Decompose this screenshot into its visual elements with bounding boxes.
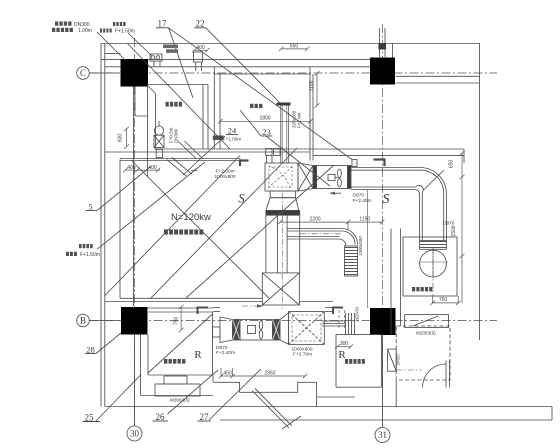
top-left note line2 [52, 28, 55, 32]
leader 17 [169, 28, 352, 160]
short wall above column 31 [392, 44, 394, 58]
svg-text:300: 300 [340, 341, 349, 347]
dim 1500 right vertical [461, 177, 463, 303]
svg-text:R: R [194, 349, 202, 361]
dim 750 right-bottom [433, 302, 459, 304]
left mid note line1 CJK [79, 244, 82, 248]
flex connector left (dark) [313, 166, 317, 189]
axial fan circle [420, 250, 447, 277]
wall band under rooms line 1 [155, 148, 465, 150]
opening corner mark right [333, 308, 343, 315]
bottom-left room R top wall line1 [148, 307, 213, 309]
generator room hatch X diagonal 2 [131, 160, 269, 298]
bottom fan row: inlet connector [213, 327, 221, 337]
elbow seam diagonal [423, 170, 444, 191]
fan propeller [338, 169, 342, 178]
bottom fan cone [220, 317, 233, 343]
lower duct bottom line [287, 238, 339, 240]
grid 31 bubble stem [382, 336, 384, 428]
bottom-middle room R2 right wall [380, 334, 382, 387]
svg-text:F+2.0m: F+2.0m [297, 112, 302, 128]
dim 400 lower-left [125, 169, 137, 171]
intake shaft inner duct [277, 215, 279, 273]
small elbow inner arc [342, 231, 355, 244]
stepped plinth outline under bottom fan row [214, 382, 355, 397]
generator room left edge [119, 159, 121, 298]
top small fixture near column (circles) [150, 54, 162, 61]
pipes through B wall left of column 31 [345, 313, 347, 334]
vertical duct right wall [445, 194, 447, 241]
fan room centerline [432, 248, 434, 296]
dashed plant room bottom right [396, 326, 450, 380]
room1 right wall line 2 [207, 85, 209, 150]
grid 30 bubble stem [134, 335, 136, 426]
leader 23 [266, 136, 330, 186]
bottom building line 2 [220, 419, 552, 421]
grid line C (dash-dot horizontal) [90, 72, 498, 74]
elbow inner wall top arc [351, 170, 444, 240]
svg-text:S: S [238, 191, 245, 206]
B-wall top segments near plenum [325, 307, 333, 309]
top-left note2 line2 CJK + F+1.50m [100, 29, 102, 33]
dim 1100 vertical [316, 73, 318, 105]
duct top cap bar [277, 103, 291, 106]
svg-text:F+1.50m: F+1.50m [115, 28, 135, 34]
svg-text:600: 600 [118, 134, 124, 143]
room2 right wall line 2 [312, 74, 314, 161]
wall band under rooms line 3 [120, 158, 241, 160]
flex above fan circle [420, 240, 447, 249]
fixture label lines [163, 45, 178, 49]
wall line y=155.6 right segment [313, 155, 464, 157]
leader 28 [96, 333, 121, 354]
tick boxes on wall band [266, 149, 272, 156]
wall verticals right of exhaust area [390, 229, 392, 335]
svg-text:750: 750 [439, 297, 448, 303]
wall line under dashed room [395, 380, 397, 407]
room1 top wall [148, 84, 209, 86]
dim 600 left vertical [126, 129, 128, 147]
elbow outer arc [420, 168, 446, 194]
generator room bottom wall line 1 [120, 297, 262, 299]
long section diagonal A [128, 44, 231, 150]
bottom-left room R outer left wall [140, 335, 142, 396]
dashed pair below small elbow [338, 310, 340, 330]
leader 22 [206, 28, 281, 104]
bottom-middle room R2 left wall [335, 334, 337, 387]
wall under column C-30 (step) [135, 87, 148, 117]
dim 650 top [281, 48, 307, 50]
svg-text:F+1.00m: F+1.00m [223, 137, 241, 142]
svg-text:750: 750 [174, 317, 180, 326]
vertical line left of grid31 lower [367, 190, 369, 308]
air intake neck below damper box [270, 191, 296, 198]
svg-text:1800: 1800 [259, 116, 270, 122]
svg-text:DN300: DN300 [174, 128, 179, 143]
damper dashed arc inside box [268, 166, 290, 188]
room1 name CJK [166, 102, 169, 107]
muffler slash [413, 316, 438, 326]
transition cone with X [298, 163, 313, 191]
C bubble stem [89, 72, 120, 74]
bottom-middle room R2 top wall [336, 333, 381, 335]
intake shaft outer walls [265, 215, 267, 273]
svg-text:650: 650 [449, 160, 455, 169]
svg-text:27: 27 [200, 412, 210, 422]
top wall right of column 31 line 1 [396, 75, 480, 77]
muffler box under room R [155, 384, 200, 396]
svg-text:N=120kw: N=120kw [171, 212, 211, 223]
dash-dot into door area [396, 369, 422, 371]
svg-text:31: 31 [378, 430, 387, 440]
generator room hatch X diagonal 1a [150, 148, 297, 299]
svg-text:M2003(5): M2003(5) [416, 331, 436, 336]
svg-text:DN50: DN50 [396, 354, 401, 365]
generator room bottom wall line 2 [105, 301, 262, 303]
dim 400 #2 [137, 169, 160, 171]
muffler box right [405, 315, 449, 328]
damper dashed diagonal [268, 166, 293, 188]
dim 400 top [194, 49, 207, 51]
supply duct: damper plenum box [265, 163, 298, 191]
damper box dashed inner rect [269, 167, 292, 187]
svg-text:1500: 1500 [451, 225, 457, 236]
generator room hatch X diagonal 1b [105, 156, 241, 297]
dim 1800 room2 [220, 120, 310, 122]
leader 25 [95, 375, 141, 423]
svg-text:2350: 2350 [264, 371, 275, 377]
pipe legs under circle fixture [153, 61, 155, 67]
bottom-left room R lower line [141, 395, 214, 397]
leader 5 [97, 167, 150, 211]
leader 24 [183, 136, 225, 175]
B wall segment right of shaft [299, 301, 333, 303]
vertical duct left wall [419, 195, 421, 241]
stray diagonal bottom left of 31 [282, 416, 301, 429]
small label near room2 left bottom [213, 136, 224, 140]
top-left note line1 CJK+DN300 [55, 22, 58, 26]
room2 left wall line 1 [213, 67, 215, 149]
door arc bottom right [423, 364, 447, 388]
bottom plenum with dashed X [289, 312, 325, 345]
svg-text:25: 25 [85, 413, 95, 423]
standpipe in room1: circle [154, 126, 163, 135]
room1 right wall line 1 [202, 85, 204, 150]
svg-text:22: 22 [196, 19, 205, 29]
top wall band line 2 [148, 66, 371, 68]
grid bubble C [77, 67, 90, 80]
svg-text:C: C [80, 68, 86, 78]
right building edge [479, 44, 481, 341]
standpipe base [156, 150, 162, 158]
extra top-left band lines [105, 53, 121, 55]
wall band under rooms line 2 [105, 151, 310, 153]
lower duct inner lines [287, 230, 342, 232]
room R name CJK [164, 359, 167, 364]
leader top-left note 1 [97, 32, 125, 60]
bottom flex 1 [233, 320, 241, 341]
grid line 30 (dash-dot vertical) [134, 38, 136, 426]
bottom-left room R inner left wall [147, 335, 149, 376]
left outer wall line 2 [104, 44, 106, 407]
svg-text:2xDN50: 2xDN50 [355, 306, 360, 322]
svg-text:1000x800: 1000x800 [215, 174, 236, 180]
wall band under rooms line 4 [120, 160, 241, 162]
column B-31 [370, 308, 396, 335]
svg-text:DN300: DN300 [74, 22, 90, 28]
dim 300 bottom-middle [337, 346, 351, 348]
fan circle cross [419, 261, 448, 263]
svg-text:400: 400 [148, 165, 157, 171]
svg-text:5: 5 [88, 202, 92, 212]
duct to elbow bottom line [351, 189, 415, 191]
leader top-left note 2 [128, 33, 152, 56]
dim 450 / 2350 [221, 375, 305, 377]
intake louver hatched band [266, 210, 300, 215]
pipe stub above column C31 [379, 28, 381, 57]
CJK text simulated as tiny strokes [52, 22, 432, 364]
lower duct centerline [300, 233, 342, 235]
door leaf [445, 361, 447, 388]
fan room name CJK [412, 287, 415, 291]
svg-text:23: 23 [262, 127, 271, 137]
left outer wall line 1 [100, 44, 102, 407]
flex on vertical duct between bottom rooms [388, 349, 397, 371]
bottom right closing edge [551, 407, 553, 421]
exhaust plenum box with X [262, 273, 299, 305]
svg-text:400: 400 [127, 165, 136, 171]
column B-30 [121, 307, 148, 335]
small elbow outer arc [342, 229, 358, 245]
thick opening mark left of damper [240, 161, 249, 167]
duct to elbow top line [351, 167, 420, 169]
dim 750 left-bottom vertical [180, 307, 182, 330]
exhaust louver hatched [345, 246, 358, 276]
svg-text:M2003(5): M2003(5) [170, 398, 190, 403]
top wall band line 1 [101, 58, 371, 60]
top wall right of column 31 line 2 [396, 82, 480, 84]
insulation marks on room1 bottom wall [178, 141, 196, 159]
room R right wall extension to plinth [212, 375, 214, 382]
svg-text:26: 26 [156, 412, 166, 422]
svg-text:1.00m: 1.00m [78, 28, 92, 34]
airflow arrow under fan [330, 192, 341, 194]
svg-text:2200: 2200 [309, 217, 320, 223]
step vertical at x=316.6 [316, 397, 318, 407]
svg-text:1150: 1150 [359, 217, 370, 223]
room2 left wall line 2 [219, 74, 221, 149]
vertical duct 320x160 in room2 [280, 106, 282, 164]
bottom-left room R top wall line2 [148, 311, 213, 313]
dim 2200 / 1150 [280, 221, 382, 223]
corner vertical at x=464 [463, 149, 465, 163]
insulation double diagonal marks [167, 160, 187, 176]
svg-text:400: 400 [196, 45, 205, 51]
bottom building line 1 [105, 406, 552, 408]
top fixture pipe under 400 dim [194, 52, 203, 62]
svg-text:D870: D870 [443, 221, 455, 227]
room2 right wall line 1 [309, 67, 311, 161]
svg-text:30: 30 [130, 429, 140, 439]
svg-text:450: 450 [223, 371, 232, 377]
bottom-middle room R2 bottom wall [336, 386, 381, 388]
svg-text:28: 28 [86, 345, 95, 355]
B bubble stem [89, 320, 121, 322]
bottom-left room R right wall [212, 312, 214, 375]
svg-text:S: S [383, 192, 390, 207]
generator room name CJK [164, 229, 168, 234]
dim 650 right vertical [461, 153, 463, 177]
wall along grid 30 [133, 87, 135, 307]
svg-text:D670: D670 [353, 193, 365, 199]
svg-text:F+2.00m: F+2.00m [216, 169, 235, 175]
elbow inner arc [415, 190, 420, 195]
pipes into damper box top [266, 156, 268, 164]
shaft centerline [281, 193, 283, 309]
room1 left wall line 1 [147, 85, 149, 178]
bottom fan box [240, 320, 273, 341]
svg-text:F+2.40m: F+2.40m [353, 198, 372, 204]
standpipe valve X box [154, 135, 164, 147]
outer top wall line [101, 43, 480, 45]
grid line 31 (dash-dot vertical) [382, 24, 384, 427]
svg-text:17: 17 [158, 19, 168, 29]
damper handle on duct [352, 160, 357, 167]
grid bubble B [77, 314, 90, 327]
svg-text:B: B [80, 316, 86, 326]
arrowed dash-dot into exhaust plenum [242, 305, 262, 307]
double diagonal mark bottom middle [252, 391, 289, 429]
opening corner mark left [198, 308, 209, 315]
svg-text:1100: 1100 [309, 80, 315, 91]
svg-text:1000x500: 1000x500 [358, 236, 363, 256]
top-left note2 line1 CJK [113, 22, 115, 26]
svg-text:F+2.40m: F+2.40m [216, 350, 235, 356]
elbow inner wall bottom [351, 185, 423, 240]
bottom transition [280, 313, 289, 344]
grid line B (dash-dot horizontal) [90, 320, 498, 322]
steep leader from 17 underline [169, 28, 193, 98]
section diagonal B [186, 165, 334, 298]
bottom-left room R hatch diagonal [148, 314, 213, 373]
arrowhead on exhaust dash-dot [257, 304, 264, 308]
svg-text:650: 650 [290, 44, 299, 50]
svg-text:F+2.70m: F+2.70m [293, 352, 312, 358]
fan box [317, 166, 348, 189]
pipe wall-crossing dark mark above column C31 [379, 43, 387, 50]
room2 top inner line [214, 73, 310, 75]
svg-text:24: 24 [228, 126, 237, 136]
thick opening mark right (near S) [374, 160, 385, 167]
room1 left wall line 2 [155, 94, 157, 150]
intake bell flare [266, 198, 299, 211]
column C-30 [121, 59, 149, 87]
svg-text:F+1.50m: F+1.50m [80, 252, 100, 258]
bottom flex 2 [273, 320, 281, 341]
leader 26 [168, 370, 219, 414]
leader 23 upper [240, 110, 261, 136]
column C-31 [370, 58, 395, 85]
small tick mark mid [191, 170, 198, 172]
grid bubble 30 [127, 426, 142, 441]
grid bubble 31 [375, 428, 390, 443]
small elbow inner arc [339, 239, 346, 246]
bottom-left room R bottom wall [148, 374, 213, 376]
left mid note line2 CJK + F+1.50m [66, 252, 69, 256]
room R2 name CJK [345, 359, 348, 364]
lower duct from shaft to small elbow: top line [287, 228, 342, 230]
leader 27 [209, 369, 261, 420]
right room (fan room) outline [403, 237, 457, 296]
leader air-pipe note [97, 162, 205, 249]
flex connector right (dark) [348, 166, 352, 189]
muffler connector under room R [164, 376, 187, 384]
fan motor square [328, 174, 335, 180]
room2 name CJK [250, 104, 253, 108]
generator room name (CJK approximated) [157, 230, 205, 235]
